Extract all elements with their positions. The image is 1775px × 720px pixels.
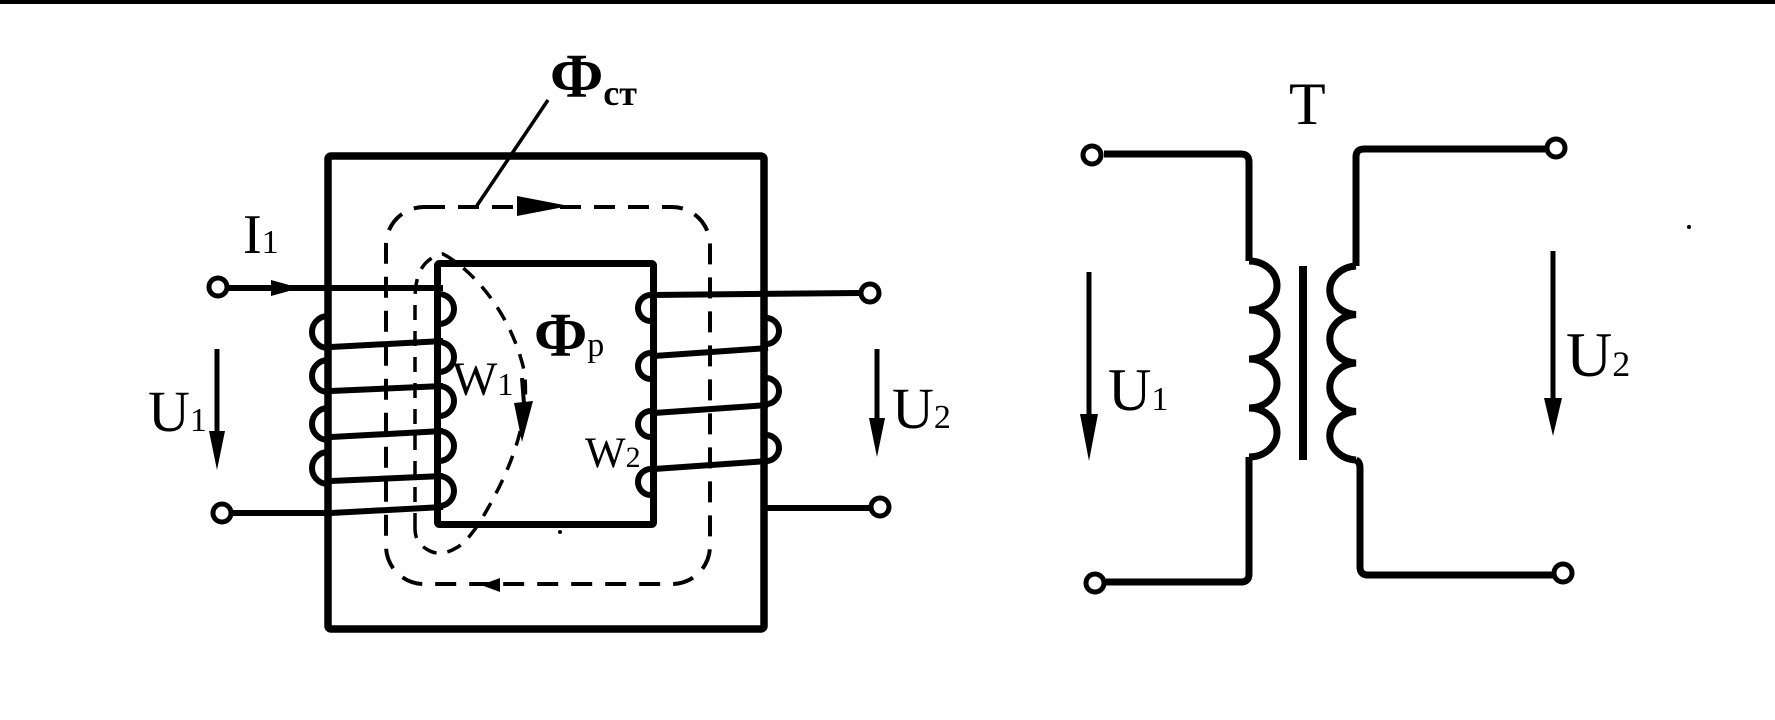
schematic secondary top wire — [1356, 149, 1546, 266]
input wire top — [229, 285, 443, 291]
transformer core window — [438, 264, 654, 525]
leakage flux loop — [415, 254, 525, 553]
voltage arrow U1 — [215, 349, 220, 437]
winding W1 crossing wires — [331, 341, 443, 481]
schematic secondary terminal bottom — [1554, 564, 1572, 582]
schematic voltage arrow U2 — [1551, 251, 1556, 404]
schematic primary coil — [1249, 261, 1277, 457]
transformer core outer outline — [328, 156, 764, 629]
flux arrow top (right) — [517, 196, 569, 216]
schematic primary terminal bottom — [1086, 574, 1104, 592]
svg-text:T: T — [1289, 71, 1326, 137]
schematic primary terminal top — [1083, 146, 1101, 164]
schematic secondary terminal top — [1547, 139, 1565, 157]
output wire bottom — [764, 505, 869, 511]
top border bar — [0, 0, 1775, 4]
current arrow I1 — [271, 280, 300, 296]
input terminal top — [209, 278, 227, 296]
schematic secondary coil — [1330, 266, 1356, 460]
schematic primary bottom wire — [1106, 457, 1249, 582]
input wire bottom — [233, 507, 443, 513]
schematic secondary bottom wire — [1356, 460, 1553, 575]
leakage flux arrow — [522, 378, 524, 404]
schematic core bars — [1299, 266, 1307, 460]
schematic primary top wire — [1104, 154, 1249, 261]
core flux path (dashed loop) — [386, 207, 710, 584]
voltage arrow U2 — [875, 349, 880, 424]
pointer line — [476, 100, 548, 207]
winding W2 left bumps — [638, 295, 651, 495]
schematic voltage arrow U1 — [1087, 272, 1092, 420]
input terminal bottom — [213, 504, 231, 522]
output terminal bottom — [871, 498, 889, 516]
winding W1 left bumps — [312, 316, 328, 484]
speck — [558, 530, 562, 534]
winding W2 right bumps — [766, 318, 779, 461]
speck — [1687, 225, 1691, 229]
output terminal top — [861, 284, 879, 302]
winding W2 crossing wires — [654, 348, 768, 469]
winding W1 right bumps — [439, 294, 454, 506]
output wire top — [651, 293, 859, 295]
flux arrow bottom (left) — [481, 578, 500, 592]
